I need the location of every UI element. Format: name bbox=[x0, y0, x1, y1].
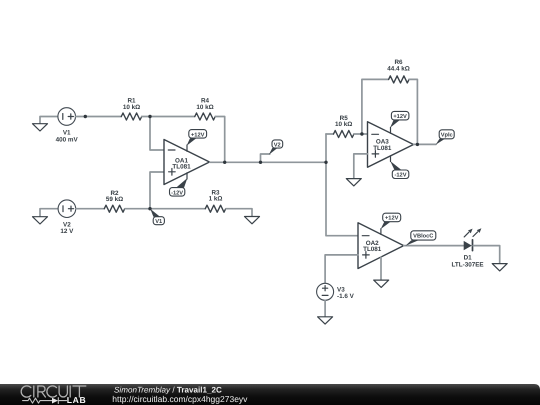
wire OA1 output bbox=[210, 161, 326, 163]
wire R1 to R4 (node) bbox=[142, 116, 195, 118]
svg-text:+12V: +12V bbox=[393, 114, 407, 120]
wire V2 flag tail bbox=[261, 154, 270, 162]
voltage source V1 bbox=[56, 108, 79, 144]
svg-text:12 V: 12 V bbox=[60, 228, 74, 235]
wire to R5 bbox=[326, 133, 333, 135]
LED D1 bbox=[452, 228, 484, 268]
svg-text:59 kΩ: 59 kΩ bbox=[106, 196, 123, 203]
resistor R1 bbox=[121, 98, 141, 121]
svg-text:-12V: -12V bbox=[171, 190, 183, 196]
junction dot at V1 output bbox=[84, 115, 87, 118]
resistor R5 bbox=[334, 115, 354, 138]
op-amp OA1 bbox=[164, 140, 210, 185]
node flag VBlocC bbox=[405, 231, 436, 246]
resistor R3 bbox=[205, 189, 225, 212]
ground (V2 negative terminal) bbox=[33, 209, 59, 224]
wire R5 to OA3 inverting input bbox=[354, 133, 367, 135]
junction dot R4 feedback bbox=[223, 161, 226, 164]
svg-text:LAB: LAB bbox=[67, 395, 86, 405]
svg-text:TL081: TL081 bbox=[172, 164, 191, 171]
+12V supply flag OA2 bbox=[381, 213, 401, 234]
svg-text:-1.6 V: -1.6 V bbox=[337, 293, 355, 300]
wire R6 left leg bbox=[362, 79, 389, 134]
junction dot R5/R6 node bbox=[360, 132, 363, 135]
-12V supply flag OA1 bbox=[170, 173, 188, 197]
logo resistor-diode squiggle bbox=[23, 398, 67, 404]
wire R4 down to OA1 output bbox=[215, 117, 224, 163]
junction dot OA3 output bbox=[416, 143, 419, 146]
wire node down to OA1 inverting input bbox=[150, 117, 164, 151]
junction dot node after R1 bbox=[148, 115, 151, 118]
svg-text:+12V: +12V bbox=[385, 216, 399, 222]
svg-text:10 kΩ: 10 kΩ bbox=[335, 121, 352, 128]
wire right vertical bus (OA1 out / R5 / OA2 inverting) bbox=[326, 134, 358, 236]
junction dot node V1 bbox=[148, 207, 151, 210]
svg-text:-12V: -12V bbox=[394, 173, 406, 179]
ground (V3 negative terminal) bbox=[318, 300, 333, 324]
op-amp OA3 bbox=[368, 122, 414, 168]
+12V supply flag OA3 bbox=[390, 111, 409, 133]
op-amp OA2 bbox=[358, 223, 404, 269]
wire OA2 output to LED bbox=[404, 245, 464, 247]
svg-text:V1: V1 bbox=[63, 130, 71, 137]
wire OA3 output to Vplc bbox=[414, 143, 437, 145]
ground (V1 negative terminal) bbox=[33, 117, 58, 132]
svg-text:LTL-307EE: LTL-307EE bbox=[452, 262, 484, 269]
svg-text:400 mV: 400 mV bbox=[56, 137, 79, 144]
wire R6 right leg down to OA3 output bbox=[409, 79, 417, 144]
wire R2 to node V1 to R3 bbox=[125, 208, 205, 210]
svg-text:http://circuitlab.com/cpx4hgg2: http://circuitlab.com/cpx4hgg273eyv bbox=[112, 394, 248, 404]
wire OA1 noninverting input bbox=[150, 172, 164, 209]
-12V supply flag OA3 bbox=[390, 156, 409, 179]
resistor R2 bbox=[104, 190, 124, 212]
svg-text:44.4 kΩ: 44.4 kΩ bbox=[387, 66, 410, 73]
wire OA2 noninverting input to V3 bbox=[325, 255, 358, 283]
svg-text:V2: V2 bbox=[274, 142, 281, 148]
+12V supply flag OA1 bbox=[187, 130, 207, 152]
footer bar bbox=[0, 384, 540, 405]
wire V1 to R1 bbox=[76, 116, 122, 118]
CircuitLab logo wordmark CIRCUIT bbox=[21, 386, 86, 397]
svg-text:Vplc: Vplc bbox=[441, 132, 453, 139]
wire V2 to R2 bbox=[76, 208, 105, 210]
ground (R3 right) bbox=[226, 209, 260, 224]
node flag V1 bbox=[150, 209, 164, 225]
svg-text:V1: V1 bbox=[155, 219, 162, 225]
junction dot V2 flag tap bbox=[259, 161, 262, 164]
svg-text:10 kΩ: 10 kΩ bbox=[123, 104, 140, 111]
voltage source V3 bbox=[317, 283, 355, 300]
ground (OA2 negative supply) bbox=[374, 257, 389, 287]
svg-text:D1: D1 bbox=[464, 255, 473, 262]
svg-text:+12V: +12V bbox=[191, 132, 205, 138]
resistor R4 bbox=[195, 98, 215, 121]
voltage source V2 bbox=[58, 200, 76, 235]
resistor R6 bbox=[387, 59, 410, 83]
svg-text:1 kΩ: 1 kΩ bbox=[209, 196, 223, 203]
junction dot output bus corner bbox=[324, 161, 327, 164]
svg-text:10 kΩ: 10 kΩ bbox=[196, 104, 213, 111]
ground (OA3 noninverting input) bbox=[346, 154, 367, 186]
svg-text:TL081: TL081 bbox=[373, 145, 392, 152]
node flag Vplc bbox=[436, 130, 455, 145]
ground (LED cathode) bbox=[473, 246, 507, 271]
node flag V2 bbox=[269, 140, 283, 155]
svg-text:TL081: TL081 bbox=[363, 246, 382, 253]
svg-text:VBlocC: VBlocC bbox=[413, 233, 433, 240]
